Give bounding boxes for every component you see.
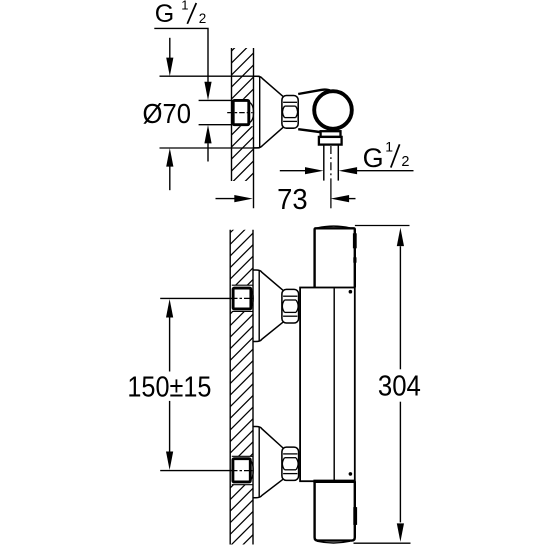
svg-text:2: 2	[199, 11, 207, 26]
lower escutcheon cone (bottom view)	[253, 427, 284, 449]
wall face line	[253, 48, 255, 208]
G 1/2 leader line top of union	[199, 99, 235, 101]
bottom arc of lower cylinder	[317, 541, 350, 543]
upper escutcheon cone (bottom view)	[253, 270, 284, 291]
extension line bottom of mixer (for 304)	[354, 542, 411, 544]
dim G 1/2 at outlet pipe - right arrow and leader	[339, 167, 358, 174]
shadow bar under block (top of lower cylinder)	[313, 480, 355, 483]
svg-text:G: G	[363, 143, 384, 173]
svg-text:2: 2	[401, 154, 409, 170]
lower union centreline dashes	[232, 470, 252, 472]
screw dot upper	[349, 290, 353, 294]
valve body taper to thermostat head	[298, 90, 330, 94]
extension line top of mixer (for 304)	[355, 225, 410, 227]
wall hole clearance upper union	[226, 285, 253, 311]
wall left edge line	[231, 48, 233, 181]
upper union fitting G 1/2 (bottom view)	[233, 288, 251, 309]
outlet pipe walls	[323, 145, 325, 181]
wall left edge line bottom view	[229, 230, 231, 545]
extension line escutcheon top	[160, 75, 260, 77]
dim 70 lower arrow	[166, 148, 173, 167]
lower cylinder (volume handle)	[315, 481, 355, 540]
dim 70 upper arrow	[169, 38, 171, 58]
centreline of union (top view)	[227, 112, 252, 114]
outlet pipe centreline	[330, 146, 332, 186]
G 1/2 leader line bottom of union	[199, 124, 235, 126]
lower union fitting G 1/2 (bottom view)	[233, 459, 250, 482]
leader underline of G 1/2 label with elbow	[154, 28, 208, 82]
block inner edge line	[333, 288, 335, 480]
screw dot lower	[349, 472, 353, 476]
arrow down to union top	[204, 82, 211, 101]
wall hole clearance lower union	[226, 456, 253, 484]
lower hex nut (bottom view)	[282, 447, 299, 480]
upper union centreline dashes	[232, 297, 252, 299]
svg-text:150±15: 150±15	[127, 372, 211, 404]
dim 304 vertical line and arrows	[397, 228, 404, 247]
outlet collar band 2	[319, 137, 342, 145]
upper hex nut (bottom view)	[282, 289, 299, 323]
upper handle grip marks	[353, 233, 357, 248]
outlet collar band 1	[321, 131, 341, 137]
wall hole clearance around union	[226, 99, 253, 126]
extension line escutcheon bottom	[160, 147, 260, 149]
hex nut (top view)	[282, 96, 298, 129]
svg-text:73: 73	[277, 184, 308, 216]
wall face line bottom view	[252, 230, 254, 545]
thermostat head circle (side view)	[314, 91, 352, 129]
union fitting G 1/2 in wall (top view)	[233, 100, 249, 124]
lower handle grip mark	[353, 507, 357, 525]
connection block box of mixer	[300, 288, 355, 482]
svg-text:G: G	[155, 0, 174, 28]
clearance hole edges upper	[232, 284, 253, 286]
dim G 1/2 at outlet pipe - left arrow	[280, 170, 306, 172]
dim 73 - left arrow at wall face	[216, 198, 236, 200]
upper cylinder (thermostat handle)	[315, 228, 355, 287]
svg-text:304: 304	[378, 371, 421, 403]
dim 150 +/- 15 vertical line and arrows	[166, 299, 173, 318]
dome arc on top of upper cylinder	[317, 226, 350, 228]
escutcheon cone (top view)	[254, 76, 284, 97]
extension line upper port centreline	[160, 297, 232, 299]
extension line lower port centreline	[160, 470, 232, 472]
svg-text:1: 1	[385, 139, 393, 155]
svg-text:1: 1	[181, 0, 188, 13]
svg-text:Ø70: Ø70	[143, 98, 192, 129]
clearance hole edges lower	[232, 455, 253, 457]
arrow up to union bottom	[204, 125, 211, 143]
dim 73 - right arrow at pipe centreline	[331, 195, 350, 202]
